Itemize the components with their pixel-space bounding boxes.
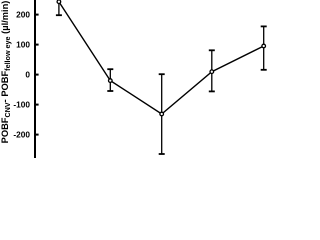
y-axis line xyxy=(34,0,36,158)
data line xyxy=(59,2,264,114)
error bar stems xyxy=(59,2,264,154)
y tick labels xyxy=(13,9,30,139)
chart: POBF difference line plot with error bars xyxy=(0,0,290,158)
y-axis title (rotated) xyxy=(0,1,12,144)
svg-text:0: 0 xyxy=(25,69,30,79)
svg-text:200: 200 xyxy=(16,9,30,19)
svg-text:100: 100 xyxy=(16,39,30,49)
svg-text:-200: -200 xyxy=(13,129,30,139)
data markers (open circles) xyxy=(57,0,265,116)
svg-text:-100: -100 xyxy=(13,99,30,109)
error bar caps xyxy=(56,15,267,154)
y-axis ticks (inward) xyxy=(36,15,39,135)
